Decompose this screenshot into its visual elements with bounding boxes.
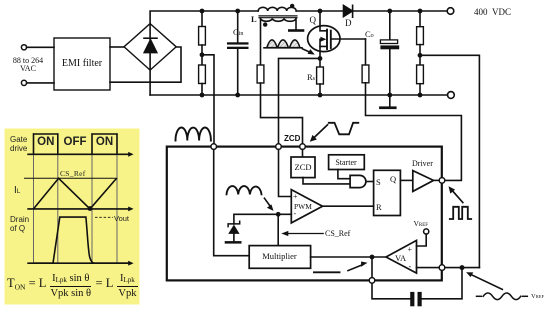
gate drive ON pulse 2 [92, 134, 117, 154]
label Drain of Q [10, 215, 29, 233]
yellow inset panel [5, 129, 140, 305]
label PWM [294, 202, 312, 211]
resistor Rs [317, 67, 324, 84]
Vref pin circle [424, 229, 429, 234]
ground symbol bar [379, 106, 397, 109]
label ZCD pin bold [284, 134, 300, 143]
label EMI filter [54, 58, 110, 69]
diode D [344, 5, 353, 17]
input terminal top [21, 45, 26, 50]
label Starter [328, 158, 364, 167]
drain axis [27, 261, 133, 266]
wire CS to PWM plus [279, 147, 292, 197]
driver buffer triangle [413, 171, 434, 192]
arrow pulses to driver pin [449, 186, 463, 202]
wire Vref to VA plus [417, 234, 427, 246]
label VA plus [408, 245, 413, 254]
label Cin [233, 27, 243, 37]
inductor L primary winding [258, 7, 296, 11]
wire between sense resistors [201, 45, 203, 65]
MOSFET gate bar [330, 31, 332, 48]
zener diode clamp [228, 221, 240, 241]
node PWM minus junction [276, 212, 281, 217]
output terminal top [447, 8, 454, 15]
wire driver to pin [434, 179, 443, 181]
wire secondary right end to ground [295, 18, 297, 29]
label IL [14, 185, 20, 196]
resistor gate [362, 65, 369, 83]
resistor R lower (mains sense) [199, 65, 206, 84]
dash annotation near multiplier [314, 271, 340, 273]
label Q latch [390, 174, 396, 184]
gridline t3 [91, 133, 93, 264]
wire bridge bottom to rail [149, 70, 151, 95]
multiplier block [249, 246, 310, 269]
wire input top to EMI [27, 46, 54, 48]
wire gate resistor to driver pin [366, 83, 462, 181]
icon multiplier output bumps [227, 186, 262, 194]
label ON 2 [92, 136, 117, 148]
ground symbol stem [389, 95, 391, 106]
wire feedback tap [420, 55, 479, 267]
wire divider mid [419, 45, 421, 65]
wire EMI top out to bridge left vertex [110, 46, 124, 48]
label VA [395, 253, 406, 263]
label Gate drive [10, 135, 27, 153]
ground bar of zener [225, 241, 242, 244]
gridline t4 [116, 133, 118, 264]
wire AND to S input [366, 181, 373, 183]
label Vout [114, 214, 129, 223]
wire Rs to rail [319, 84, 321, 95]
wire compensation cap to feedback node [422, 268, 462, 299]
hatched rectified-current icon baseline [264, 47, 302, 49]
label PWM minus [294, 209, 297, 218]
IL axis [27, 207, 133, 212]
MOSFET drain lead [320, 11, 327, 31]
hatched rectified-current icon bumps [267, 40, 300, 48]
label 88 to 264 VAC [6, 57, 50, 74]
MOSFET channel segments [326, 30, 328, 49]
controller box [167, 147, 442, 281]
label CS_Ref annotation [325, 229, 350, 238]
arrow bumps to PWM input [264, 198, 273, 211]
inductor ZCD secondary winding [261, 18, 296, 21]
SR latch block [374, 170, 401, 215]
label L [251, 14, 257, 24]
resistor R upper (mains sense) [199, 27, 206, 46]
resistor Rs stem [319, 58, 321, 67]
formula T_ON [7, 273, 139, 300]
capacitor Co plates [380, 40, 399, 49]
resistor output divider upper [417, 27, 424, 45]
wire sense resistor to rail [201, 84, 203, 96]
wire input bottom to EMI [27, 82, 54, 84]
wire EMI bottom out [110, 47, 181, 82]
primary phase dot [290, 4, 294, 8]
gate drive ON pulse 1 [34, 134, 58, 154]
ground bar of ZCD winding [288, 29, 304, 32]
label R [376, 202, 382, 212]
op-amp VA error amplifier [386, 240, 417, 273]
Starter block [329, 155, 365, 170]
icon Vref squiggle [477, 293, 528, 300]
gridline t1 [33, 133, 35, 264]
bridge rectifier diamond [124, 24, 176, 71]
capacitor Cin plates [227, 42, 249, 49]
label Multiplier [249, 251, 310, 261]
node source junction [318, 56, 323, 61]
resistor chain left: upper stem [201, 11, 203, 27]
ZCD block [291, 157, 315, 178]
icon mains halfsine bumps [176, 127, 211, 140]
icon ZCD waveform [329, 123, 359, 135]
wire divider lower to rail [419, 84, 421, 95]
icon gate pulses [450, 207, 471, 219]
wire PWM output to R input [323, 205, 374, 207]
label CS_Ref chart [60, 169, 86, 178]
node feedback junction [460, 265, 465, 270]
label S [376, 177, 381, 187]
label OFF [58, 136, 92, 148]
transistor Q (MOSFET) circle [308, 26, 340, 52]
inductor core [259, 16, 297, 18]
MOSFET gate lead [331, 38, 366, 40]
MOSFET body arrow [320, 37, 326, 47]
wire gate drive [365, 39, 367, 65]
node VA output junction [370, 255, 375, 260]
wire bridge top to rail [150, 11, 258, 24]
resistor output divider lower [417, 65, 424, 84]
label ON 1 [34, 136, 59, 148]
wire ZCD block to AND gate [303, 178, 350, 184]
capacitor Cin stem bottom [237, 49, 239, 95]
EMI filter box [54, 38, 110, 90]
wire multiplier output up [277, 214, 279, 245]
label Co [365, 29, 374, 39]
wire Q output to driver [400, 179, 412, 181]
wire zener to PWM minus [234, 214, 291, 224]
label VREF squiggle [531, 293, 544, 300]
label PWM plus [293, 192, 298, 201]
label 400 VDC [474, 7, 511, 17]
resistor ZCD series [257, 65, 264, 83]
wire ZCD pin to ZCD block [302, 147, 304, 157]
arrow CS_Ref pointer [281, 231, 323, 236]
wire source to CS [279, 58, 321, 146]
wire top rail winding to diode [296, 10, 343, 12]
capacitor compensation [410, 292, 422, 306]
AND gate U2 [350, 175, 366, 187]
gridline t2 [57, 133, 59, 264]
arrow ZCD pointer [310, 125, 328, 142]
wire diode to output terminal [353, 10, 448, 12]
label D [345, 18, 352, 28]
label VA minus [409, 262, 412, 271]
label VREF pin [414, 219, 429, 228]
node dots power stage [200, 9, 423, 98]
wire mains sense tap to controller [202, 55, 214, 147]
arrow to VA output node [348, 262, 368, 271]
MOSFET source lead [320, 46, 327, 58]
pin circles on controller box [211, 144, 445, 283]
wire starter to AND gate [338, 170, 350, 179]
output divider upper stem [419, 11, 421, 27]
gate drive axis [27, 152, 133, 157]
arrow current icon to source [303, 49, 315, 55]
arrow to feedback node [466, 272, 502, 289]
capacitor Co stem top [389, 11, 391, 40]
wire multiplier to VA output [311, 256, 386, 258]
CS_Ref level line [24, 177, 118, 179]
capacitor Co stem bottom [389, 49, 391, 95]
drain voltage waveform [34, 217, 130, 263]
wire ZCD resistor to pin [261, 83, 303, 147]
Vout dashed level [95, 216, 113, 218]
capacitor Cin stem top [237, 11, 239, 42]
wire VA output compensation down [372, 257, 410, 299]
secondary phase dot [263, 22, 267, 26]
op-amp PWM comparator [291, 190, 322, 223]
label Q [310, 15, 317, 25]
wire multiplier mains input [214, 147, 250, 256]
output terminal bottom [448, 92, 455, 99]
label Driver [412, 159, 433, 168]
wire VA minus feedback [417, 267, 480, 269]
wire bottom rail [150, 94, 447, 96]
wire ZCD winding to resistor [260, 18, 262, 65]
label Rs [307, 72, 315, 82]
input terminal bottom [21, 80, 26, 85]
IL zero dot [88, 206, 93, 211]
IL triangle waveform [34, 178, 117, 209]
bridge diode [144, 25, 157, 69]
label ZCD block [291, 162, 315, 172]
